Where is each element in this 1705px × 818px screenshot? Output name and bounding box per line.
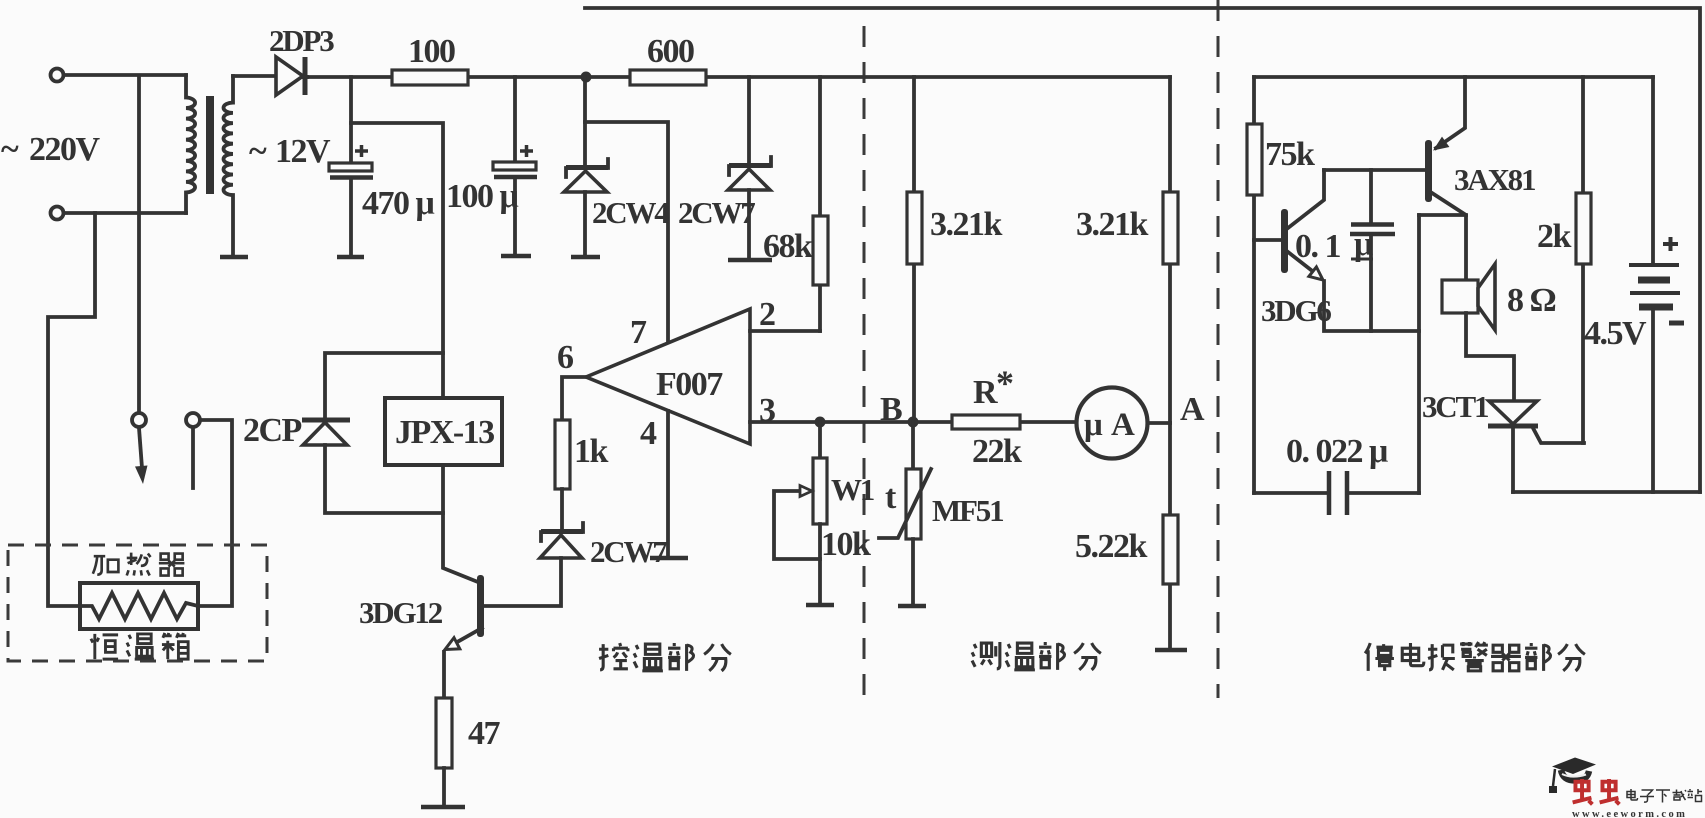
svg-text:3.21k: 3.21k bbox=[930, 206, 1003, 243]
thyristor 3CT1 bbox=[1488, 401, 1584, 492]
wire relay supply feed bbox=[351, 123, 443, 398]
ground W1 bbox=[806, 603, 834, 608]
resistor R 600 bbox=[630, 70, 706, 85]
wire upper mains bbox=[64, 73, 186, 77]
svg-text:0. 1: 0. 1 bbox=[1295, 228, 1341, 265]
svg-text:W1: W1 bbox=[831, 472, 874, 507]
speaker 8ohm bbox=[1442, 264, 1514, 401]
ground 2CW7 first bbox=[728, 258, 772, 263]
wire pin4 ground lead bbox=[666, 411, 670, 556]
zener 2CW4 bbox=[564, 77, 608, 256]
transformer T secondary winding bbox=[223, 76, 233, 256]
section label 测温部分 bbox=[972, 642, 1101, 670]
heater resistor box bbox=[80, 583, 198, 629]
svg-text:0. 022 μ: 0. 022 μ bbox=[1286, 433, 1388, 470]
svg-text:2DP3: 2DP3 bbox=[269, 23, 334, 58]
svg-text:100 μ: 100 μ bbox=[446, 178, 519, 215]
section label 控温部分 bbox=[599, 643, 731, 671]
wire meter to node A bbox=[1149, 421, 1170, 425]
svg-text:600: 600 bbox=[647, 33, 694, 70]
svg-text:~: ~ bbox=[1, 131, 19, 168]
ground 47 bbox=[421, 805, 465, 810]
ground 470u bbox=[337, 255, 364, 260]
node dot pin3 W1 tap bbox=[815, 417, 826, 428]
watermark graduation cap bbox=[1549, 758, 1596, 794]
capacitor 0.022u bbox=[1254, 471, 1419, 515]
svg-text:47: 47 bbox=[468, 715, 501, 752]
wire relay blade drop bbox=[137, 76, 141, 412]
wire heater feed from lower mains bbox=[48, 213, 95, 606]
label battery plus bbox=[1663, 237, 1678, 251]
svg-text:1k: 1k bbox=[574, 433, 609, 470]
svg-text:B: B bbox=[880, 391, 902, 428]
svg-text:*: * bbox=[996, 363, 1014, 403]
capacitor C1 470u bbox=[329, 77, 373, 256]
thermistor MF51 bbox=[879, 422, 931, 604]
resistor R 100 bbox=[392, 70, 468, 85]
diode 2DP3 bbox=[276, 57, 305, 95]
dashed thermostat enclosure bbox=[8, 545, 267, 661]
relay contact movable bbox=[132, 413, 146, 427]
svg-text:100: 100 bbox=[408, 33, 455, 70]
svg-text:2CW4: 2CW4 bbox=[592, 195, 669, 230]
resistor R 1k bbox=[555, 420, 570, 489]
op-amp U1 F007 bbox=[586, 309, 750, 444]
wire 3DG6 collector to 3AX81 base bbox=[1324, 168, 1425, 172]
wire contact to heater bbox=[198, 420, 232, 606]
node junction dot main rail bbox=[581, 72, 592, 83]
relay contact fixed bbox=[186, 413, 200, 427]
svg-text:75k: 75k bbox=[1265, 136, 1315, 173]
potentiometer W1 10k bbox=[774, 422, 827, 604]
svg-text:F007: F007 bbox=[656, 366, 723, 403]
svg-text:220V: 220V bbox=[29, 131, 101, 168]
relay JPX-13 box bbox=[385, 398, 502, 465]
svg-text:10k: 10k bbox=[821, 526, 871, 563]
wire 47 to ground bbox=[442, 768, 446, 805]
wire pin3 output line bbox=[750, 420, 1076, 424]
svg-text:8 Ω: 8 Ω bbox=[1507, 282, 1556, 319]
capacitor 0.1u bbox=[1350, 170, 1395, 331]
wire timing vertical bbox=[1417, 215, 1421, 493]
svg-text:470 μ: 470 μ bbox=[362, 185, 435, 222]
svg-text:μ: μ bbox=[1354, 226, 1373, 263]
svg-text:MF51: MF51 bbox=[932, 493, 1003, 528]
svg-text:A: A bbox=[1180, 391, 1205, 428]
svg-text:7: 7 bbox=[630, 314, 647, 351]
svg-text:5.22k: 5.22k bbox=[1075, 528, 1148, 565]
svg-text:JPX-13: JPX-13 bbox=[395, 414, 494, 451]
resistor R 47 bbox=[436, 698, 452, 768]
resistor R 3.21k left bbox=[907, 77, 922, 422]
svg-text:~: ~ bbox=[249, 133, 267, 170]
svg-text:2CP: 2CP bbox=[243, 412, 302, 449]
terminal lower 220V bbox=[51, 207, 64, 220]
relay blade with arrow bbox=[135, 428, 148, 484]
ground MF51 bbox=[898, 604, 926, 609]
wire alarm section top rail bbox=[1254, 75, 1653, 79]
svg-text:3DG12: 3DG12 bbox=[359, 595, 443, 630]
wire bottom return rail bbox=[1513, 490, 1700, 494]
resistor R 2k bbox=[1576, 77, 1591, 443]
ground 100u bbox=[501, 254, 531, 259]
wire diode to rail bbox=[303, 75, 307, 79]
diode 2CP bbox=[302, 353, 443, 513]
svg-text:3AX81: 3AX81 bbox=[1454, 162, 1535, 197]
svg-text:6: 6 bbox=[557, 339, 573, 376]
svg-text:4: 4 bbox=[640, 415, 657, 452]
ground pin4 bbox=[650, 556, 688, 561]
wire lower mains bbox=[64, 211, 186, 215]
section label 停电报警器部分 bbox=[1365, 642, 1585, 671]
zener 2CW7 first bbox=[728, 77, 771, 258]
transformer core bbox=[206, 96, 214, 194]
wire pin2 to 68k bbox=[750, 329, 820, 333]
svg-text:68k: 68k bbox=[763, 228, 813, 265]
node B dot bbox=[908, 417, 919, 428]
dashed separator line between control and measurement sections bbox=[863, 26, 866, 698]
svg-text:12V: 12V bbox=[275, 133, 331, 170]
resistor R 5.22k bbox=[1163, 423, 1178, 648]
label battery minus bbox=[1669, 321, 1684, 326]
ground 2CW4 bbox=[571, 255, 600, 260]
ground secondary bbox=[220, 255, 248, 260]
svg-text:4.5V: 4.5V bbox=[1584, 315, 1647, 352]
svg-text:2: 2 bbox=[759, 296, 775, 333]
top supply rail bbox=[585, 8, 1700, 492]
resistor R* 22k bbox=[952, 415, 1020, 429]
svg-text:2k: 2k bbox=[1537, 218, 1572, 255]
wire collector branch to timing line bbox=[1419, 213, 1466, 217]
capacitor C2 100u bbox=[493, 77, 537, 255]
svg-text:2CW7: 2CW7 bbox=[590, 534, 667, 569]
terminal upper 220V bbox=[51, 69, 64, 82]
wire secondary to diode bbox=[233, 74, 276, 78]
transistor Q2 3DG6 bbox=[1254, 170, 1419, 331]
label heater 加热器 bbox=[93, 553, 185, 576]
battery 4.5V bbox=[1629, 77, 1680, 492]
svg-text:3.21k: 3.21k bbox=[1076, 206, 1149, 243]
svg-text:R: R bbox=[973, 374, 998, 411]
svg-text:www.eeworm.com: www.eeworm.com bbox=[1572, 809, 1687, 818]
resistor R 75k bbox=[1247, 77, 1262, 493]
main +12V rail bbox=[303, 75, 1170, 79]
transistor Q1 3DG12 bbox=[444, 575, 484, 698]
ground 5.22k bbox=[1155, 648, 1187, 653]
svg-text:μ A: μ A bbox=[1084, 407, 1135, 443]
meter uA bbox=[1077, 388, 1148, 459]
resistor R 68k bbox=[813, 77, 828, 331]
wire relay bottom to transistor bbox=[443, 465, 478, 582]
wire pin6 stub bbox=[562, 377, 586, 420]
svg-text:22k: 22k bbox=[972, 433, 1022, 470]
watermark 电子下载站 bbox=[1627, 789, 1702, 803]
svg-text:2CW7: 2CW7 bbox=[678, 195, 755, 230]
svg-text:3CT1: 3CT1 bbox=[1422, 389, 1488, 424]
transistor Q3 3AX81 bbox=[1425, 77, 1466, 280]
svg-text:3DG6: 3DG6 bbox=[1261, 293, 1331, 328]
watermark 虫虫 red bbox=[1573, 779, 1620, 804]
label thermostat box 恒温箱 bbox=[91, 633, 188, 659]
zener 2CW7 second bbox=[484, 489, 583, 606]
dashed separator line between measurement and alarm sections bbox=[1217, 0, 1220, 698]
wire op-amp V+ pin7 bbox=[585, 122, 668, 343]
wire fixed contact stub bbox=[191, 428, 195, 488]
transformer T primary winding bbox=[186, 75, 195, 213]
resistor R 3.21k right bbox=[1163, 77, 1178, 423]
